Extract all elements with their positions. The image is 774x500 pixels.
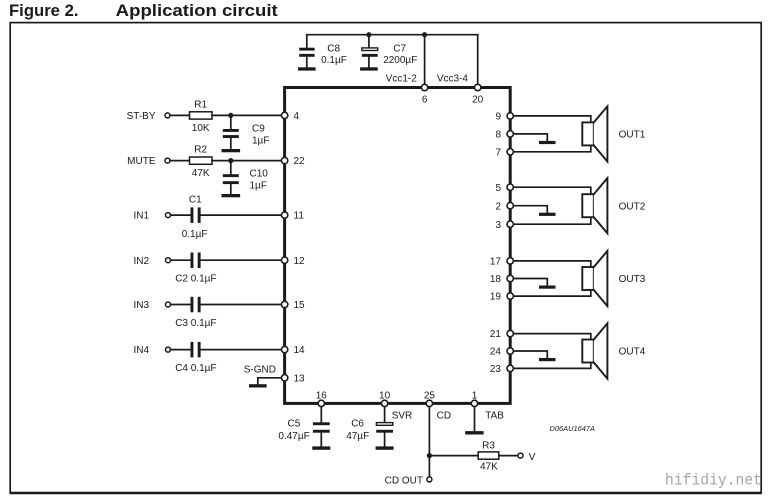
svg-text:47K: 47K (480, 462, 498, 473)
svg-text:SVR: SVR (392, 410, 413, 421)
wire pin 17 to speaker OUT3 (510, 261, 591, 267)
svg-text:C5: C5 (288, 419, 301, 430)
capacitor C7 (362, 35, 417, 68)
wire ST-BY to R1 (170, 114, 190, 116)
wire R1 to pin 4 (212, 114, 285, 116)
ground (C10) (222, 194, 241, 197)
svg-text:19: 19 (490, 292, 502, 303)
wire R3 to V (499, 455, 518, 457)
terminal MUTE (165, 158, 170, 163)
ground (C6) (376, 446, 394, 449)
svg-text:OUT1: OUT1 (619, 130, 646, 141)
junction Vcc1-2 riser (422, 32, 427, 37)
terminal V (518, 453, 523, 458)
svg-text:1µF: 1µF (250, 181, 267, 192)
resistor R1 (190, 99, 213, 134)
speaker OUT4 (582, 323, 645, 378)
capacitor C5 (278, 403, 329, 446)
ground (C5) (312, 446, 330, 449)
wire IN3 to C3 (171, 304, 191, 306)
wire IN1 to C1 (171, 214, 191, 216)
ground (pin 24) (539, 358, 556, 361)
capacitor C2 (175, 253, 216, 285)
pin 20 (475, 84, 481, 90)
speaker OUT2 (582, 178, 645, 233)
pin 24 (507, 348, 513, 354)
svg-text:OUT2: OUT2 (619, 201, 646, 212)
svg-text:Figure 2.: Figure 2. (9, 1, 79, 20)
svg-text:R3: R3 (482, 440, 495, 451)
svg-text:C3 0.1µF: C3 0.1µF (175, 318, 216, 329)
pin 22 (281, 157, 287, 163)
svg-text:12: 12 (294, 256, 306, 267)
wire R2 to pin 22 (212, 160, 285, 162)
ground (pin 2) (539, 213, 556, 216)
resistor R2 (190, 145, 213, 179)
junction R2/C10 (228, 158, 233, 163)
svg-text:21: 21 (490, 329, 502, 340)
capacitor C10 (223, 161, 268, 194)
pin 18 (507, 275, 513, 281)
svg-text:16: 16 (316, 391, 328, 402)
svg-text:OUT4: OUT4 (619, 347, 646, 358)
svg-text:C6: C6 (351, 419, 364, 430)
svg-text:10: 10 (379, 391, 391, 402)
svg-text:20: 20 (472, 95, 484, 106)
svg-text:MUTE: MUTE (127, 156, 156, 167)
pin 19 (507, 293, 513, 299)
speaker OUT3 (582, 251, 645, 306)
svg-text:25: 25 (424, 391, 436, 402)
wire C1 to pin 11 (201, 214, 285, 216)
ground (pin 8) (539, 141, 556, 144)
wire pin 21 to speaker OUT4 (510, 334, 591, 340)
svg-text:CD: CD (437, 410, 451, 421)
svg-text:IN3: IN3 (134, 300, 150, 311)
pin 11 (281, 212, 287, 218)
svg-text:IN1: IN1 (134, 211, 150, 222)
pin 12 (281, 257, 287, 263)
wire pin 8 to ground (510, 134, 547, 141)
svg-text:C7: C7 (393, 43, 406, 54)
ground (C9) (222, 149, 241, 152)
svg-text:14: 14 (294, 345, 306, 356)
wire top supply bus (307, 34, 478, 36)
ground (C8) (298, 67, 316, 70)
terminal IN1 (166, 213, 171, 218)
junction C7 top (366, 32, 371, 37)
pin 8 (507, 131, 513, 137)
svg-text:22: 22 (294, 156, 306, 167)
svg-text:9: 9 (495, 112, 501, 123)
pin 1 (471, 400, 477, 406)
terminal IN2 (166, 258, 171, 263)
svg-text:24: 24 (490, 347, 502, 358)
speaker OUT1 (582, 106, 645, 161)
svg-text:ST-BY: ST-BY (127, 111, 156, 122)
svg-text:1µF: 1µF (252, 136, 269, 147)
wire CD junction to R3 (429, 455, 478, 457)
ground (TAB) (465, 431, 483, 434)
svg-text:C2 0.1µF: C2 0.1µF (175, 274, 216, 285)
wire pin 9 to speaker OUT1 (510, 116, 591, 123)
wire IN2 to C2 (171, 259, 191, 261)
pin 13 (281, 375, 287, 381)
wire pin 23 to speaker OUT4 (510, 363, 591, 369)
svg-text:0.47µF: 0.47µF (278, 431, 309, 442)
wire pin 18 to ground (510, 279, 547, 286)
pin 16 (318, 400, 324, 406)
wire pin 2 to ground (510, 206, 547, 213)
svg-text:C10: C10 (250, 169, 269, 180)
ground (S-GND) (249, 384, 267, 387)
terminal IN4 (166, 347, 171, 352)
terminal ST-BY (165, 113, 170, 118)
svg-text:S-GND: S-GND (244, 364, 276, 375)
svg-text:C1: C1 (189, 195, 202, 206)
svg-text:0.1µF: 0.1µF (321, 55, 347, 66)
pin 17 (507, 258, 513, 264)
capacitor C9 (223, 115, 270, 149)
wire MUTE to R2 (170, 160, 190, 162)
svg-text:Application circuit: Application circuit (116, 1, 278, 20)
wire Vcc3-4 riser to pin 20 (477, 35, 479, 88)
svg-text:23: 23 (490, 364, 502, 375)
wire Vcc1-2 riser to pin 6 (424, 35, 426, 88)
svg-text:7: 7 (495, 147, 501, 158)
svg-text:0.1µF: 0.1µF (182, 229, 208, 240)
svg-text:D06AU1647A: D06AU1647A (550, 424, 596, 433)
svg-text:Vcc1-2: Vcc1-2 (386, 74, 418, 85)
svg-text:10K: 10K (192, 123, 210, 134)
svg-text:47K: 47K (192, 168, 210, 179)
capacitor C1 (182, 195, 208, 241)
wire pin 13 to ground (258, 378, 285, 384)
IC U1 body (285, 88, 511, 404)
wire C3 to pin 15 (201, 304, 285, 306)
svg-text:5: 5 (495, 183, 501, 194)
svg-text:4: 4 (294, 111, 300, 122)
pin 25 (426, 400, 432, 406)
capacitor C6 (346, 403, 393, 446)
svg-text:TAB: TAB (485, 410, 504, 421)
svg-text:C4 0.1µF: C4 0.1µF (175, 363, 216, 374)
svg-text:CD OUT: CD OUT (385, 475, 423, 486)
capacitor C3 (175, 297, 216, 329)
svg-text:hifidiy.net: hifidiy.net (665, 472, 762, 490)
svg-text:17: 17 (490, 257, 502, 268)
svg-text:1: 1 (472, 391, 478, 402)
wire IN4 to C4 (171, 349, 191, 351)
svg-text:47µF: 47µF (346, 431, 369, 442)
pin 15 (281, 301, 287, 307)
svg-text:IN4: IN4 (134, 345, 150, 356)
junction R1/C9 (228, 113, 233, 118)
pin 4 (281, 112, 287, 118)
wire pin 19 to speaker OUT3 (510, 290, 591, 296)
pin 7 (507, 149, 513, 155)
wire pin 7 to speaker OUT1 (510, 145, 591, 151)
svg-text:15: 15 (294, 300, 306, 311)
svg-text:Vcc3-4: Vcc3-4 (437, 74, 469, 85)
wire pin 5 to speaker OUT2 (510, 187, 591, 194)
svg-text:2: 2 (495, 201, 501, 212)
svg-text:OUT3: OUT3 (619, 274, 646, 285)
pin 5 (507, 184, 513, 190)
svg-text:3: 3 (495, 220, 501, 231)
svg-text:R1: R1 (194, 99, 207, 110)
svg-text:8: 8 (495, 130, 501, 141)
junction CD (427, 453, 432, 458)
svg-text:2200µF: 2200µF (383, 55, 417, 66)
pin 3 (507, 221, 513, 227)
wire C2 to pin 12 (201, 259, 285, 261)
svg-text:6: 6 (422, 95, 428, 106)
capacitor C4 (175, 342, 216, 374)
wire pin 3 to speaker OUT2 (510, 217, 591, 224)
ground (C7) (360, 67, 378, 70)
svg-text:C8: C8 (327, 43, 340, 54)
svg-text:C9: C9 (252, 124, 265, 135)
ground (pin 18) (539, 286, 556, 289)
terminal CD OUT (427, 477, 432, 482)
svg-text:IN2: IN2 (134, 256, 150, 267)
pin 21 (507, 330, 513, 336)
svg-text:V: V (529, 452, 536, 463)
terminal IN3 (166, 302, 171, 307)
capacitor C8 (299, 35, 347, 68)
figure title (9, 1, 278, 20)
wire pin 24 to ground (510, 351, 547, 358)
pin 9 (507, 113, 513, 119)
svg-text:11: 11 (294, 211, 305, 222)
pin 10 (381, 400, 387, 406)
pin 23 (507, 365, 513, 371)
wire pin 1 to ground (474, 403, 476, 431)
pin 6 (421, 84, 427, 90)
wire C4 to pin 14 (201, 349, 285, 351)
svg-text:18: 18 (490, 274, 502, 285)
pin 2 (507, 203, 513, 209)
resistor R3 (478, 440, 499, 472)
svg-text:R2: R2 (194, 145, 207, 156)
wire pin 25 to CD OUT (428, 403, 430, 477)
svg-text:13: 13 (294, 374, 306, 385)
pin 14 (281, 346, 287, 352)
